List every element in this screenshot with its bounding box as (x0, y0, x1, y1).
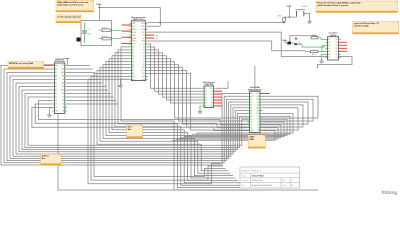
resistor R2 pull-up (99, 36, 122, 40)
svg-text:(1MHz): (1MHz) (330, 35, 337, 37)
wire address bus: CPU left pins to mid bus to lower bus (88, 47, 248, 190)
svg-text:(W65C02S-P): (W65C02S-P) (133, 19, 145, 21)
wire red pulled-high stubs at CPU left (122, 25, 132, 43)
wire address bus: EEPROM left pins to bottom bus up to RAM left pins (1, 66, 247, 166)
wire EEPROM select line bottom loop (58, 114, 318, 191)
note RAM size (248, 135, 265, 149)
wire red A14 stub at EEPROM (44, 64, 54, 66)
resistor R3 reset pull-up (277, 16, 296, 24)
static RAM U3 62256 (247, 86, 262, 132)
svg-text:6502 and kbd: 6502 and kbd (252, 180, 262, 182)
resistor R5 (305, 45, 325, 56)
wire data bus: CPU right pins staircase to shift register and RAM right (148, 44, 318, 130)
power 5V oscillator (282, 40, 288, 43)
svg-text:Bus: Bus (42, 158, 46, 160)
shift register U4 74HC595 (202, 81, 216, 108)
note address bus (41, 154, 62, 165)
wire data lines: EEPROM lower pins loop to RAM left lower pins (32, 101, 248, 131)
ground oscillator (319, 54, 325, 63)
capacitor C2 decoupling (77, 38, 82, 42)
capacitor C3 22pF (294, 42, 325, 48)
wire red stubs shift register outputs (214, 91, 222, 106)
ground CPU (118, 79, 129, 88)
wire 5V rail to reset pull-up (99, 7, 285, 27)
svg-text:65C02 KBL/1: 65C02 KBL/1 (252, 176, 265, 178)
wire red NC stubs CPU right (146, 35, 159, 40)
svg-text:Microprocessor: Microprocessor (132, 17, 146, 19)
resistor R1 pull-up (99, 27, 122, 31)
svg-text:Logic for PHI2 via Video. C3: Logic for PHI2 via Video. C3 (354, 23, 379, 25)
crystal Y1 1MHz (287, 42, 294, 45)
wire PHI2O loop to oscillator (148, 32, 352, 69)
ground EEPROM (47, 108, 52, 118)
ground shift register (198, 106, 202, 114)
wire RAM right lower pins west loop (172, 114, 293, 141)
capacitor C1 (82, 23, 90, 44)
wire oscillator top rail (290, 36, 317, 43)
svg-text:32kB: 32kB (249, 136, 254, 138)
wire pull-up network frame (81, 8, 112, 46)
wire PHI2 feed (148, 41, 305, 51)
wire EEPROM right pins taps to vertical address bus (67, 66, 119, 105)
svg-text:C1: C1 (88, 29, 90, 31)
svg-text:1uF: 1uF (88, 34, 91, 36)
ground reset (307, 20, 311, 24)
title block (240, 167, 300, 188)
power 5V reset (286, 6, 291, 18)
note EEPROM size (8, 62, 44, 69)
svg-text:a: a (291, 180, 292, 182)
wire RAM VCC drop (254, 66, 256, 89)
note data bus (127, 125, 143, 138)
power 5V EEPROM (64, 59, 69, 66)
microprocessor U1 W65C02S (129, 17, 148, 81)
svg-text:R3 1k: R3 1k (277, 16, 282, 18)
svg-text:fritzing: fritzing (382, 190, 398, 195)
wire red stub at RAM right (260, 92, 270, 94)
note reset explanation (316, 1, 398, 13)
oscillator U5 (325, 32, 340, 60)
fritzing watermark (382, 190, 398, 195)
note C2 decoupling (56, 15, 81, 23)
power 5V CPU rail (96, 4, 101, 6)
svg-text:1/1: 1/1 (291, 185, 293, 187)
wire shift register VCC stub (216, 81, 228, 88)
pushbutton S1 reset (296, 5, 310, 20)
svg-text:should be 100pF.: should be 100pF. (354, 26, 370, 28)
note IRQB NMIB pull-up (56, 1, 94, 13)
svg-text:Bus: Bus (128, 129, 132, 131)
svg-text:EEPROM: EEPROM (55, 59, 64, 61)
ground crystal case (294, 37, 297, 40)
wire red stubs oscillator (339, 42, 348, 51)
resistor R4 (311, 35, 325, 39)
EEPROM U2 AT28C256 (52, 59, 67, 114)
svg-text:EEPROM, only using 16kB: EEPROM, only using 16kB (9, 63, 33, 65)
wire oscillator output stub (339, 56, 341, 58)
note PHI2 logic (353, 22, 399, 35)
